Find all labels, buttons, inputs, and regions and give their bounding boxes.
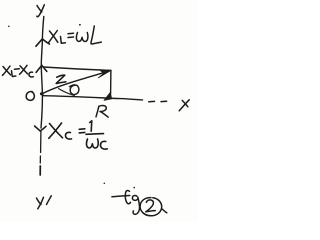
node label theta [70, 85, 79, 95]
node y-axis label y [37, 5, 45, 17]
node origin junction blob [40, 92, 44, 95]
node caption fig 2 [112, 187, 167, 216]
wire x-axis dash 1 [149, 100, 155, 102]
wire y-axis lower broken segments [39, 132, 42, 176]
node arrowhead down at R corner [104, 92, 112, 100]
node arrowhead of vector Z [98, 70, 111, 78]
node label Z [56, 75, 66, 83]
wire x-axis dash 2 [161, 100, 167, 102]
node ink speck 1 [8, 26, 10, 28]
node arrowhead xL-xc up on y-axis [36, 65, 47, 72]
wire rectangle top horizontal line [43, 67, 111, 70]
node vector Z line [43, 71, 109, 93]
wire y-axis vertical line [41, 17, 44, 129]
node angle arc theta [59, 89, 75, 96]
node label R [96, 106, 108, 118]
wire x-axis horizontal line [43, 96, 143, 100]
node ink speck 2 [104, 183, 106, 185]
node arrowhead xL up on y-axis [36, 39, 50, 46]
wire rectangle right vertical line [110, 70, 112, 93]
node label xc = 1/(omega c) [49, 121, 107, 149]
node arrowhead xc down on y-axis [35, 126, 46, 131]
node origin label O [26, 92, 34, 101]
node x-axis label x [179, 100, 189, 111]
node label xL - xc [3, 65, 34, 77]
node label y-prime [37, 196, 52, 209]
node label xL = omega L [49, 24, 102, 44]
